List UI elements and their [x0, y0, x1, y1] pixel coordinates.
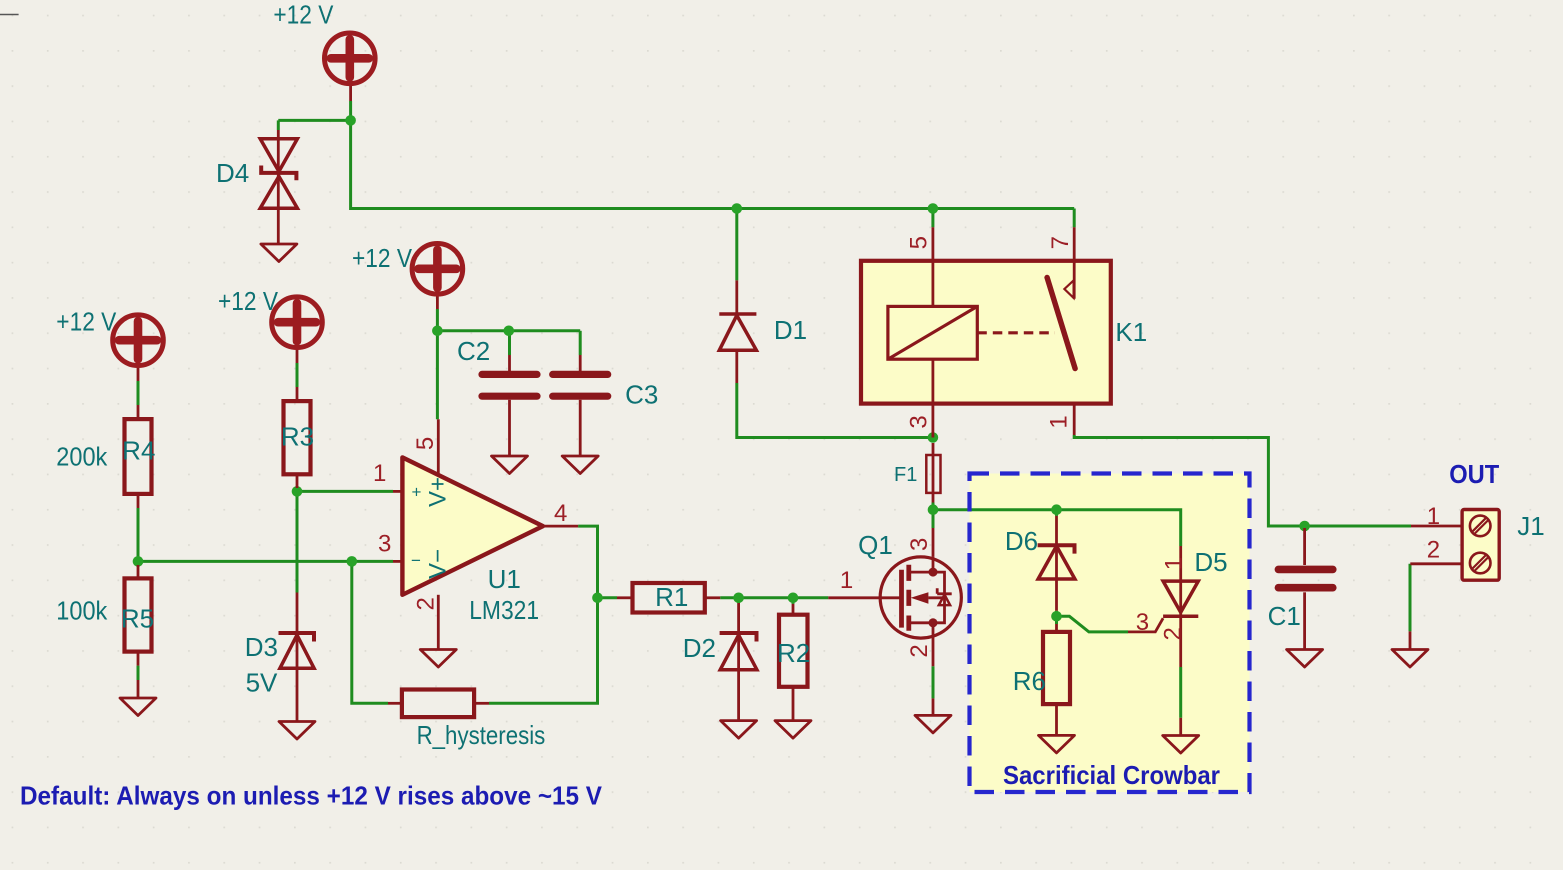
svg-text:1: 1: [840, 567, 853, 594]
svg-text:R1: R1: [655, 582, 688, 612]
svg-text:200k: 200k: [56, 442, 108, 472]
svg-text:U1: U1: [488, 564, 521, 594]
svg-text:R2: R2: [777, 638, 810, 668]
svg-text:2: 2: [1427, 537, 1440, 564]
svg-text:+12 V: +12 V: [352, 243, 413, 273]
svg-text:V+: V+: [425, 477, 452, 507]
svg-text:3: 3: [906, 415, 933, 428]
svg-text:+12 V: +12 V: [218, 286, 279, 316]
svg-text:4: 4: [554, 500, 567, 527]
svg-text:+: +: [412, 483, 422, 502]
svg-text:Default: Always on unless +12: Default: Always on unless +12 V rises ab…: [20, 781, 603, 811]
svg-text:1: 1: [1427, 503, 1440, 530]
svg-text:C3: C3: [625, 380, 658, 410]
svg-text:1: 1: [1160, 557, 1187, 570]
svg-text:Sacrificial Crowbar: Sacrificial Crowbar: [1003, 760, 1220, 790]
svg-text:LM321: LM321: [469, 595, 539, 625]
svg-text:D3: D3: [245, 632, 278, 662]
svg-text:+12 V: +12 V: [273, 0, 334, 30]
svg-text:1: 1: [1046, 415, 1073, 428]
svg-text:D4: D4: [216, 158, 249, 188]
svg-text:2: 2: [1159, 627, 1186, 640]
svg-text:R3: R3: [281, 422, 314, 452]
svg-text:K1: K1: [1115, 317, 1147, 347]
svg-text:3: 3: [906, 538, 933, 551]
svg-text:D1: D1: [774, 315, 807, 345]
svg-text:R4: R4: [122, 436, 155, 466]
svg-text:R_hysteresis: R_hysteresis: [417, 720, 546, 750]
svg-text:R5: R5: [121, 604, 154, 634]
svg-text:C2: C2: [457, 336, 490, 366]
svg-text:7: 7: [1047, 236, 1074, 249]
svg-text:5: 5: [906, 236, 933, 249]
svg-text:D6: D6: [1005, 526, 1038, 556]
svg-text:D2: D2: [683, 633, 716, 663]
svg-text:D5: D5: [1194, 547, 1227, 577]
svg-text:OUT: OUT: [1449, 459, 1499, 489]
svg-text:−: −: [411, 551, 421, 570]
svg-text:R6: R6: [1013, 666, 1046, 696]
svg-text:V−: V−: [425, 549, 452, 579]
svg-text:Q1: Q1: [858, 530, 893, 560]
svg-text:1: 1: [373, 460, 386, 487]
svg-text:5: 5: [412, 437, 439, 450]
svg-text:5V: 5V: [246, 667, 278, 697]
svg-text:3: 3: [378, 531, 391, 558]
svg-text:2: 2: [412, 597, 439, 610]
svg-text:3: 3: [1136, 609, 1149, 636]
svg-text:2: 2: [906, 644, 933, 657]
svg-text:+12 V: +12 V: [56, 307, 117, 337]
svg-text:F1: F1: [894, 464, 917, 486]
svg-text:100k: 100k: [56, 596, 108, 626]
svg-text:J1: J1: [1517, 511, 1544, 541]
svg-text:C1: C1: [1268, 601, 1301, 631]
